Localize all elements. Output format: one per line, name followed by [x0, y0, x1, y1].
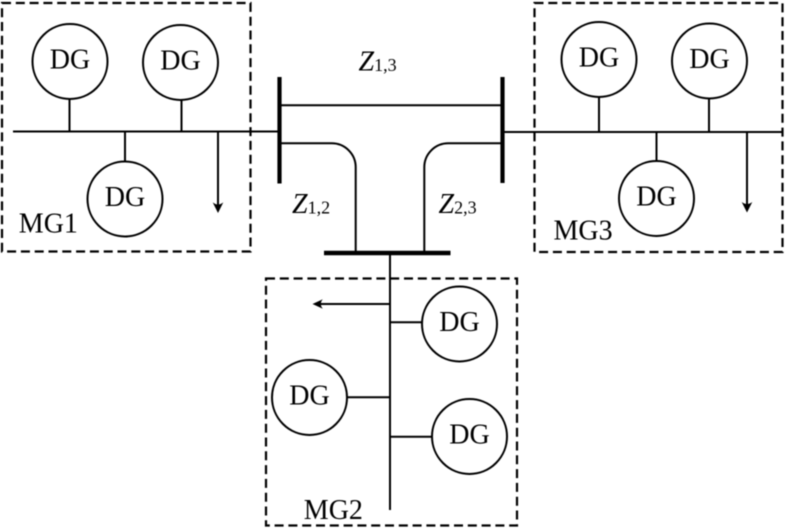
bus bar node 1 (left): [277, 77, 281, 184]
svg-text:DG: DG: [50, 45, 90, 76]
tie line Z1,3 wire: [280, 104, 503, 106]
DG source 3 of MG3: [619, 161, 694, 236]
DG source 2 of MG1: [143, 25, 218, 100]
DG source 1 of MG2: [422, 287, 497, 362]
bus bar node 3 (right): [500, 77, 504, 183]
wire DG2 stem MG2: [347, 396, 391, 398]
wire DG3 stem MG1: [124, 132, 126, 163]
svg-text:DG: DG: [289, 381, 329, 412]
wire DG3 stem MG2: [390, 436, 433, 438]
load arrow MG2: [313, 299, 391, 308]
DG source 3 of MG1: [88, 162, 163, 237]
svg-text:DG: DG: [449, 420, 489, 451]
svg-text:MG1: MG1: [19, 209, 78, 240]
MG2 bus: [389, 253, 391, 510]
wire DG1 stem MG1: [69, 98, 71, 132]
DG source 1 of MG1: [33, 24, 108, 99]
svg-text:DG: DG: [689, 44, 729, 75]
load arrow MG3: [742, 132, 753, 213]
MG1 bus: [13, 131, 280, 133]
svg-text:MG3: MG3: [554, 216, 613, 247]
wire DG1 stem MG2: [390, 321, 423, 323]
svg-text:DG: DG: [105, 182, 145, 213]
svg-text:MG2: MG2: [304, 495, 363, 526]
DG source 3 of MG2: [432, 399, 507, 474]
DG source 2 of MG2: [272, 360, 347, 435]
MG3 bus: [501, 131, 783, 133]
wire DG1 stem MG3: [598, 96, 600, 132]
load arrow MG1: [213, 132, 224, 214]
wire DG2 stem MG1: [181, 99, 183, 132]
microgrid MG1 boundary: [2, 3, 251, 252]
tie line Z2,3 wire: [424, 143, 502, 251]
wire DG2 stem MG3: [708, 98, 710, 133]
svg-text:DG: DG: [439, 307, 479, 338]
DG source 2 of MG3: [672, 24, 747, 99]
wire DG3 stem MG3: [656, 132, 658, 162]
bus bar node 2 (bottom): [324, 251, 451, 255]
tie line Z1,2 wire: [280, 143, 356, 251]
svg-text:DG: DG: [160, 46, 200, 77]
svg-text:DG: DG: [579, 43, 619, 74]
microgrid MG3 boundary: [535, 3, 783, 252]
DG source 1 of MG3: [562, 22, 637, 97]
svg-text:DG: DG: [636, 182, 676, 213]
microgrid MG2 boundary: [266, 279, 517, 526]
